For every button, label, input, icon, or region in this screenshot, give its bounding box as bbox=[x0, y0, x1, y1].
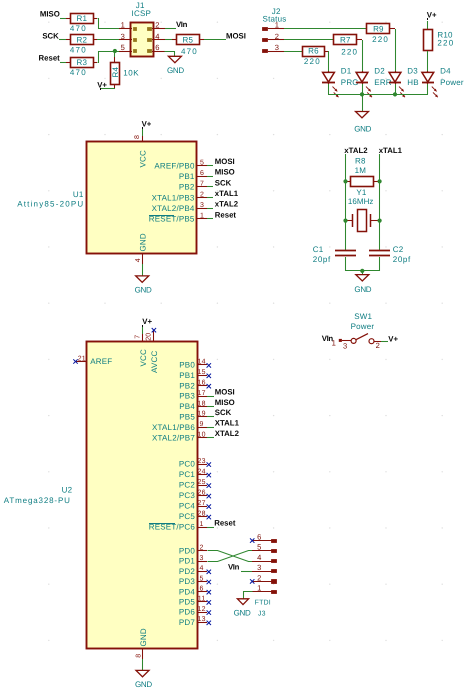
svg-text:2: 2 bbox=[200, 545, 204, 552]
svg-text:xTAL1: xTAL1 bbox=[215, 189, 239, 198]
svg-text:6: 6 bbox=[257, 533, 261, 542]
wire LED cathode rail bbox=[328, 84, 428, 95]
svg-text:14: 14 bbox=[198, 359, 206, 366]
label MISO at U1 bbox=[215, 168, 235, 177]
svg-text:PB1: PB1 bbox=[179, 172, 195, 181]
ground below U2 bbox=[135, 670, 152, 689]
svg-text:GND: GND bbox=[234, 609, 251, 618]
svg-text:10K: 10K bbox=[123, 69, 139, 78]
no-connect at PD3 bbox=[207, 580, 211, 584]
svg-text:MOSI: MOSI bbox=[215, 157, 235, 166]
svg-text:GND: GND bbox=[354, 124, 371, 133]
svg-text:PD6: PD6 bbox=[179, 608, 196, 617]
label SCK bbox=[42, 31, 59, 40]
svg-text:U2: U2 bbox=[62, 485, 73, 494]
wire XTAL1 vertical bbox=[379, 154, 381, 250]
svg-text:SCK: SCK bbox=[215, 408, 232, 417]
reference U1 bbox=[73, 190, 84, 199]
label xTAL2 at U1 bbox=[215, 200, 239, 209]
svg-text:PD5: PD5 bbox=[179, 598, 196, 607]
svg-text:5: 5 bbox=[200, 575, 204, 582]
label MOSI at U2 bbox=[215, 387, 235, 396]
svg-text:V+: V+ bbox=[142, 120, 152, 129]
pin 8 GND of U2 bbox=[136, 628, 149, 670]
wire MISO to R1 bbox=[60, 18, 66, 20]
svg-text:28: 28 bbox=[198, 510, 206, 517]
svg-text:PC2: PC2 bbox=[179, 481, 196, 490]
svg-text:4: 4 bbox=[200, 565, 204, 572]
wire PC6 stub bbox=[207, 527, 214, 529]
svg-text:6: 6 bbox=[155, 43, 159, 52]
no-connect at AVCC bbox=[152, 328, 156, 332]
pin 12 PD6 of U2 bbox=[179, 606, 207, 617]
svg-text:4: 4 bbox=[257, 553, 261, 562]
wire J2 pin2 to R7 bbox=[284, 39, 334, 41]
no-connect at PC0 bbox=[207, 462, 211, 466]
no-connect at J3 pin2 bbox=[250, 579, 254, 583]
svg-text:PB4: PB4 bbox=[179, 402, 195, 411]
power V+ below R4 bbox=[97, 80, 115, 90]
pin 4 PD2 of U2 bbox=[179, 565, 207, 576]
svg-text:1: 1 bbox=[200, 213, 204, 220]
svg-text:2: 2 bbox=[155, 21, 159, 30]
svg-text:PD0: PD0 bbox=[179, 547, 196, 556]
no-connect at PB1 bbox=[207, 374, 211, 378]
label MOSI at U1 bbox=[215, 157, 235, 166]
svg-text:220: 220 bbox=[304, 57, 321, 66]
pin 7 VCC of U2 bbox=[135, 334, 149, 367]
svg-text:3: 3 bbox=[200, 555, 204, 562]
no-connect at PC2 bbox=[207, 483, 211, 487]
svg-text:3: 3 bbox=[200, 202, 204, 209]
wire C1 to rail bbox=[345, 257, 347, 271]
svg-text:21: 21 bbox=[78, 355, 86, 362]
svg-text:1: 1 bbox=[200, 521, 204, 528]
svg-text:R6: R6 bbox=[308, 47, 319, 56]
no-connect at PC5 bbox=[207, 515, 211, 519]
svg-text:VIn: VIn bbox=[176, 20, 188, 29]
svg-text:SW1: SW1 bbox=[354, 312, 372, 321]
ground at J1 bbox=[167, 56, 184, 75]
wire R2 to J1 pin3 bbox=[93, 39, 119, 41]
svg-text:470: 470 bbox=[181, 47, 198, 56]
pin 15 PB1 of U2 bbox=[179, 369, 207, 380]
label MISO bbox=[40, 10, 60, 19]
pin 23 PC0 of U2 bbox=[179, 458, 207, 469]
LED D4 bbox=[422, 67, 464, 98]
label Reset at U1 bbox=[215, 210, 237, 219]
no-connect at PD6 bbox=[207, 610, 211, 614]
svg-text:R7: R7 bbox=[340, 36, 351, 45]
label xTAL1 bbox=[379, 146, 403, 155]
svg-text:8: 8 bbox=[136, 654, 143, 658]
resistor R10 bbox=[424, 30, 455, 51]
label MOSI at R5 bbox=[226, 31, 246, 40]
wire XTAL1/PB6 stub bbox=[207, 427, 214, 429]
resistor R4 bbox=[111, 51, 140, 89]
no-connect at PD5 bbox=[207, 600, 211, 604]
wire R3 to J1 pin5 bbox=[93, 52, 120, 63]
svg-text:10: 10 bbox=[198, 432, 206, 439]
value ATmega328-PU bbox=[4, 496, 71, 505]
wire PB3 stub bbox=[207, 396, 214, 398]
svg-text:470: 470 bbox=[70, 46, 87, 55]
reference U2 bbox=[62, 485, 73, 494]
ground at crystal bbox=[354, 275, 371, 295]
svg-text:PB3: PB3 bbox=[179, 392, 195, 401]
resistor R3 bbox=[66, 58, 94, 77]
svg-text:Status: Status bbox=[263, 14, 287, 23]
value Power at SW1 bbox=[351, 322, 375, 331]
svg-text:D4: D4 bbox=[440, 67, 451, 76]
pin 26 PC3 of U2 bbox=[179, 489, 207, 500]
no-connect at PC4 bbox=[207, 504, 211, 508]
svg-text:xTAL2: xTAL2 bbox=[215, 200, 239, 209]
LED D3 bbox=[389, 67, 419, 98]
svg-text:6: 6 bbox=[200, 170, 204, 177]
svg-text:19: 19 bbox=[198, 411, 206, 418]
pin 8 VCC of U1 bbox=[134, 129, 148, 168]
svg-text:PC5: PC5 bbox=[179, 512, 196, 521]
connector J1 ICSP bbox=[119, 1, 165, 56]
wire Reset to R3 bbox=[60, 62, 66, 64]
pin 25 PC2 of U2 bbox=[179, 479, 207, 490]
pin 10 XTAL2/PB7 of U2 bbox=[152, 432, 207, 443]
pin 13 PD7 of U2 bbox=[179, 616, 207, 627]
svg-text:PC1: PC1 bbox=[179, 470, 196, 479]
svg-text:V+: V+ bbox=[142, 317, 152, 326]
svg-text:FTDI: FTDI bbox=[255, 600, 271, 607]
svg-text:1: 1 bbox=[257, 584, 261, 593]
resistor R6 bbox=[303, 47, 325, 66]
wire XTAL2/PB7 stub bbox=[207, 437, 214, 439]
svg-text:D1: D1 bbox=[341, 67, 352, 76]
svg-text:5: 5 bbox=[200, 159, 204, 166]
IC U1 body bbox=[87, 142, 197, 254]
junction Y1 left bbox=[343, 219, 347, 223]
svg-text:VCC: VCC bbox=[138, 150, 147, 168]
svg-text:GND: GND bbox=[138, 233, 147, 251]
svg-text:4: 4 bbox=[155, 32, 159, 41]
svg-text:R3: R3 bbox=[76, 58, 87, 67]
pin 21 AREF of U2 bbox=[76, 355, 112, 366]
pin 1 RESET/PC6 of U2 bbox=[149, 521, 207, 532]
reference J3 FTDI text bbox=[255, 600, 271, 618]
svg-text:20pf: 20pf bbox=[313, 255, 331, 264]
label VIn at J1 bbox=[176, 20, 188, 29]
LED D2 bbox=[356, 67, 392, 98]
svg-text:SCK: SCK bbox=[215, 178, 232, 187]
svg-text:220: 220 bbox=[341, 47, 358, 56]
resistor R5 bbox=[165, 35, 200, 56]
svg-text:PB0: PB0 bbox=[179, 361, 195, 370]
svg-text:AREF/PB0: AREF/PB0 bbox=[154, 161, 195, 170]
junction R4/Reset node bbox=[113, 49, 117, 53]
power V+ above U2 bbox=[142, 317, 152, 334]
wire R7 to D2 bbox=[357, 40, 363, 72]
svg-text:PB2: PB2 bbox=[179, 183, 195, 192]
wire J3 pin1 to GND bbox=[244, 592, 253, 599]
svg-text:PC0: PC0 bbox=[179, 460, 196, 469]
svg-text:PB5: PB5 bbox=[179, 413, 195, 422]
svg-text:PD7: PD7 bbox=[179, 618, 196, 627]
svg-text:MOSI: MOSI bbox=[226, 31, 246, 40]
label Reset bbox=[39, 54, 61, 63]
no-connect at PD4 bbox=[207, 590, 211, 594]
svg-text:20pf: 20pf bbox=[393, 255, 411, 264]
svg-text:26: 26 bbox=[198, 489, 206, 496]
wire J2 pin1 to R9 bbox=[284, 28, 367, 30]
wire C2 to rail bbox=[379, 257, 381, 271]
svg-text:XTAL2: XTAL2 bbox=[215, 429, 240, 438]
svg-text:XTAL1/PB3: XTAL1/PB3 bbox=[152, 193, 195, 202]
no-connect at PC1 bbox=[207, 473, 211, 477]
svg-text:MISO: MISO bbox=[215, 398, 235, 407]
wire SCK to R2 bbox=[59, 39, 66, 41]
power V+ above R10 bbox=[427, 11, 437, 29]
svg-text:GND: GND bbox=[135, 285, 152, 294]
svg-text:XTAL1: XTAL1 bbox=[215, 419, 240, 428]
svg-text:R5: R5 bbox=[182, 36, 193, 45]
wire R10 to D4 bbox=[427, 51, 429, 71]
svg-text:220: 220 bbox=[437, 39, 454, 48]
pin 7 PB2 of U1 bbox=[179, 181, 213, 192]
svg-text:7: 7 bbox=[200, 181, 204, 188]
svg-text:SCK: SCK bbox=[42, 31, 59, 40]
svg-text:VCC: VCC bbox=[139, 349, 148, 367]
svg-text:25: 25 bbox=[198, 479, 206, 486]
svg-text:4: 4 bbox=[135, 258, 142, 262]
svg-text:2: 2 bbox=[275, 32, 279, 41]
wire R9 to D3 bbox=[390, 29, 396, 72]
label SCK at U1 bbox=[215, 178, 232, 187]
pin 3 PD1 of U2 bbox=[179, 555, 207, 566]
pin 24 PC1 of U2 bbox=[179, 468, 207, 479]
pin 6 PB1 of U1 bbox=[179, 170, 213, 181]
svg-text:U1: U1 bbox=[73, 190, 84, 199]
svg-text:xTAL2: xTAL2 bbox=[344, 146, 368, 155]
crystal Y1 bbox=[346, 188, 380, 231]
wire PD1 to J3 pin5 bbox=[208, 551, 253, 562]
svg-text:Power: Power bbox=[351, 322, 375, 331]
wire PB5 stub bbox=[207, 416, 214, 418]
no-connect at PD7 bbox=[207, 621, 211, 625]
svg-text:20: 20 bbox=[146, 333, 153, 341]
label xTAL1 at U1 bbox=[215, 189, 239, 198]
svg-text:13: 13 bbox=[198, 616, 206, 623]
svg-text:XTAL1/PB6: XTAL1/PB6 bbox=[152, 423, 195, 432]
svg-text:1M: 1M bbox=[355, 166, 367, 175]
no-connect at AREF bbox=[73, 359, 77, 363]
label xTAL2 bbox=[344, 146, 368, 155]
value Attiny85-20PU bbox=[17, 200, 84, 209]
svg-text:3: 3 bbox=[275, 43, 279, 52]
wire J1 pin6 to GND bbox=[165, 52, 175, 57]
svg-text:5: 5 bbox=[257, 543, 261, 552]
ground at LED rail bbox=[354, 112, 371, 134]
svg-text:AVCC: AVCC bbox=[150, 351, 159, 373]
svg-text:PC4: PC4 bbox=[179, 502, 196, 511]
resistor R1 bbox=[66, 14, 94, 33]
wire R5 to MOSI bbox=[199, 39, 226, 41]
pin 17 PB3 of U2 bbox=[179, 390, 207, 401]
svg-text:Reset: Reset bbox=[39, 54, 61, 63]
junction cap rail bbox=[360, 269, 364, 273]
svg-text:3: 3 bbox=[257, 563, 261, 572]
reference SW1 bbox=[354, 312, 372, 321]
no-connect at PD2 bbox=[207, 570, 211, 574]
svg-text:2: 2 bbox=[200, 191, 204, 198]
label SCK at U2 bbox=[215, 408, 232, 417]
svg-text:Power: Power bbox=[440, 78, 464, 87]
svg-text:1: 1 bbox=[121, 21, 125, 30]
svg-text:D3: D3 bbox=[407, 67, 418, 76]
svg-text:R8: R8 bbox=[355, 156, 366, 165]
svg-text:16MHz: 16MHz bbox=[348, 197, 374, 206]
resistor R7 bbox=[334, 35, 359, 57]
svg-text:Attiny85-20PU: Attiny85-20PU bbox=[17, 200, 84, 209]
svg-text:Reset: Reset bbox=[215, 210, 237, 219]
no-connect at PB2 bbox=[207, 384, 211, 388]
svg-text:C1: C1 bbox=[313, 245, 324, 254]
wire SW1 to V+ bbox=[381, 341, 388, 343]
resistor R2 bbox=[66, 35, 94, 55]
label VIn at J3 bbox=[228, 563, 240, 572]
wire rail to crystal GND bbox=[362, 271, 364, 274]
no-connect at PC3 bbox=[207, 494, 211, 498]
svg-text:MISO: MISO bbox=[40, 10, 60, 19]
capacitor C2 bbox=[369, 245, 411, 264]
svg-text:470: 470 bbox=[70, 24, 87, 33]
pin 19 PB5 of U2 bbox=[179, 411, 207, 422]
svg-text:1: 1 bbox=[332, 339, 336, 348]
resistor R8 bbox=[346, 156, 380, 186]
pin 2 XTAL1/PB3 of U1 bbox=[152, 191, 213, 202]
power V+ above U1 bbox=[142, 120, 152, 129]
svg-text:J3: J3 bbox=[258, 611, 266, 618]
svg-text:R9: R9 bbox=[373, 24, 384, 33]
svg-text:D2: D2 bbox=[374, 67, 385, 76]
connector J2 Status bbox=[263, 7, 287, 53]
svg-text:GND: GND bbox=[135, 680, 152, 689]
svg-text:MISO: MISO bbox=[215, 168, 235, 177]
wire rail to GND bbox=[362, 94, 364, 111]
svg-text:ICSP: ICSP bbox=[132, 9, 151, 18]
svg-text:15: 15 bbox=[198, 369, 206, 376]
svg-text:PC3: PC3 bbox=[179, 491, 196, 500]
pin 5 AREF/PB0 of U1 bbox=[154, 159, 213, 170]
connector J3 FTDI bbox=[252, 533, 277, 594]
svg-text:AREF: AREF bbox=[90, 357, 112, 366]
pin 14 PB0 of U2 bbox=[179, 359, 207, 370]
resistor R9 bbox=[367, 24, 390, 44]
svg-text:17: 17 bbox=[198, 390, 206, 397]
svg-text:PD4: PD4 bbox=[179, 587, 196, 596]
label XTAL1 at U2 bbox=[215, 419, 240, 428]
svg-text:9: 9 bbox=[200, 421, 204, 428]
svg-text:11: 11 bbox=[198, 596, 206, 603]
svg-text:PD2: PD2 bbox=[179, 567, 196, 576]
svg-text:V+: V+ bbox=[427, 11, 437, 20]
wire cap rail bbox=[346, 270, 380, 272]
svg-text:PD3: PD3 bbox=[179, 577, 196, 586]
svg-text:R1: R1 bbox=[76, 14, 87, 23]
no-connect at PB0 bbox=[207, 363, 211, 367]
junction rail at D2 bbox=[360, 92, 364, 96]
svg-text:VIn: VIn bbox=[228, 563, 240, 572]
pin 11 PD5 of U2 bbox=[179, 596, 207, 607]
svg-text:PD1: PD1 bbox=[179, 557, 196, 566]
pin 27 PC4 of U2 bbox=[179, 500, 207, 511]
pin 28 PC5 of U2 bbox=[179, 510, 207, 521]
pin 4 GND of U1 bbox=[135, 233, 147, 276]
LED D1 bbox=[322, 67, 359, 98]
svg-text:Y1: Y1 bbox=[356, 188, 367, 197]
power V+ at SW1 bbox=[388, 334, 398, 343]
svg-text:18: 18 bbox=[198, 400, 206, 407]
svg-text:GND: GND bbox=[167, 66, 184, 75]
pin 9 XTAL1/PB6 of U2 bbox=[152, 421, 207, 432]
IC U2 body bbox=[87, 342, 198, 649]
svg-text:GND: GND bbox=[139, 628, 148, 646]
svg-text:23: 23 bbox=[198, 458, 206, 465]
wire J3 pin3 to VIn bbox=[241, 571, 252, 573]
svg-text:ATmega328-PU: ATmega328-PU bbox=[4, 496, 71, 505]
wire XTAL2 vertical bbox=[345, 154, 347, 250]
pin 20 AVCC of U2 bbox=[146, 331, 160, 373]
svg-text:RESET/PC6: RESET/PC6 bbox=[149, 523, 196, 532]
label Reset at U2 bbox=[214, 518, 236, 527]
svg-text:xTAL1: xTAL1 bbox=[379, 146, 403, 155]
svg-text:PB1: PB1 bbox=[179, 371, 195, 380]
ground below U1 bbox=[135, 276, 152, 295]
pin 3 XTAL2/PB4 of U1 bbox=[152, 202, 213, 213]
pin 6 PD4 of U2 bbox=[179, 586, 207, 597]
junction Y1 right bbox=[378, 219, 382, 223]
svg-text:MOSI: MOSI bbox=[215, 387, 235, 396]
svg-text:16: 16 bbox=[198, 380, 206, 387]
svg-text:XTAL2/PB7: XTAL2/PB7 bbox=[152, 433, 195, 442]
svg-text:V+: V+ bbox=[388, 334, 398, 343]
svg-text:RESET/PB5: RESET/PB5 bbox=[149, 215, 195, 224]
svg-text:8: 8 bbox=[134, 135, 141, 139]
pin 5 PD3 of U2 bbox=[179, 575, 207, 586]
svg-text:27: 27 bbox=[198, 500, 206, 507]
svg-text:2: 2 bbox=[257, 573, 261, 582]
svg-text:6: 6 bbox=[200, 586, 204, 593]
svg-text:C2: C2 bbox=[393, 245, 404, 254]
label VIn at SW1 bbox=[322, 334, 334, 343]
svg-text:PB2: PB2 bbox=[179, 381, 195, 390]
svg-text:XTAL2/PB4: XTAL2/PB4 bbox=[152, 204, 195, 213]
label MISO at U2 bbox=[215, 398, 235, 407]
svg-text:3: 3 bbox=[121, 32, 125, 41]
pin 18 PB4 of U2 bbox=[179, 400, 207, 411]
no-connect at J3 pin6 bbox=[250, 538, 254, 542]
svg-text:470: 470 bbox=[70, 68, 87, 77]
svg-text:Reset: Reset bbox=[214, 518, 236, 527]
pin 1 RESET/PB5 of U1 bbox=[149, 213, 213, 224]
svg-text:R2: R2 bbox=[76, 36, 87, 45]
junction rail at D3 bbox=[393, 92, 397, 96]
label XTAL2 at U2 bbox=[215, 429, 240, 438]
svg-text:GND: GND bbox=[354, 285, 371, 294]
wire PD0 to J3 pin4 bbox=[208, 551, 253, 562]
svg-text:V+: V+ bbox=[97, 80, 107, 89]
svg-text:HB: HB bbox=[407, 78, 419, 87]
ground at J3 bbox=[234, 599, 251, 618]
svg-text:R4: R4 bbox=[111, 67, 120, 78]
